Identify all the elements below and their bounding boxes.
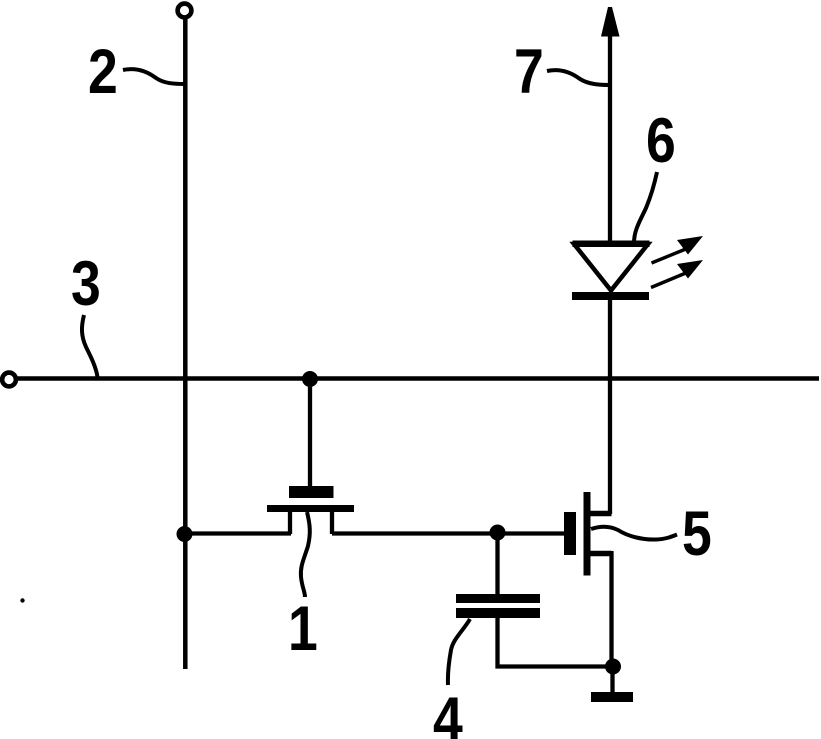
transistor Q1 left stub bbox=[288, 510, 292, 534]
wire : down to capacitor top plate bbox=[495, 532, 499, 595]
LED light arrow upper shaft bbox=[652, 249, 688, 264]
ground bar bbox=[591, 692, 633, 702]
capacitor C4 bottom plate bbox=[456, 608, 540, 618]
leader line for label 7 bbox=[547, 70, 610, 85]
svg-text:4: 4 bbox=[433, 685, 463, 739]
label 1 bbox=[288, 594, 318, 664]
terminal circle left of line 3 bbox=[2, 373, 16, 387]
wire : transistor 5 source down bbox=[609, 551, 613, 667]
node junction dot at capacitor top bbox=[490, 525, 506, 541]
node junction dot on line 3 bbox=[302, 371, 318, 387]
svg-text:3: 3 bbox=[71, 249, 101, 319]
wire : transistor 1 drain to transistor 5 gate bbox=[332, 531, 564, 535]
label 2 bbox=[88, 37, 118, 107]
node junction dot bottom bbox=[605, 659, 621, 675]
leader line for label 4 bbox=[448, 619, 470, 685]
label 7 bbox=[514, 37, 544, 107]
svg-text:2: 2 bbox=[88, 37, 118, 107]
transistor Q5 channel bar bbox=[584, 492, 591, 576]
LED light arrow lower shaft bbox=[651, 273, 687, 288]
leader line for label 3 bbox=[82, 315, 98, 377]
LED light arrow upper head bbox=[677, 236, 703, 255]
leader line for label 2 bbox=[123, 69, 185, 84]
label 3 bbox=[71, 249, 101, 319]
svg-text:1: 1 bbox=[288, 594, 318, 664]
leader line for label 1 bbox=[301, 512, 310, 597]
LED D6 triangle bbox=[574, 244, 648, 291]
wire : capacitor bottom plate down bbox=[495, 617, 499, 669]
transistor Q1 channel bar bbox=[267, 505, 354, 512]
svg-text:7: 7 bbox=[514, 37, 544, 107]
transistor Q1 gate bar bbox=[289, 486, 334, 498]
capacitor C4 top plate bbox=[456, 594, 540, 603]
LED D6 cathode bar bbox=[572, 292, 649, 300]
wire : supply line 7 vertical upper bbox=[608, 35, 612, 244]
transistor Q5 drain stub bbox=[590, 511, 612, 517]
wire : LED cathode down to transistor 5 drain bbox=[608, 298, 612, 514]
label 5 bbox=[682, 499, 712, 569]
ink speck bbox=[20, 598, 24, 602]
LED light arrow lower head bbox=[677, 260, 703, 279]
label 6 bbox=[646, 106, 676, 176]
leader line for label 5 bbox=[591, 527, 677, 540]
wire : bottom horizontal to transistor 5 source node bbox=[496, 664, 614, 668]
wire : gate of transistor 1 from node on line 3 bbox=[308, 379, 312, 488]
wire : data line 3 horizontal bbox=[16, 376, 820, 381]
transistor Q5 gate bar bbox=[564, 512, 576, 555]
wire : scan line 2 vertical bbox=[183, 14, 188, 669]
node junction dot on line 2 bbox=[177, 526, 193, 542]
label 4 bbox=[433, 685, 463, 739]
wire : line 2 to transistor 1 source bbox=[184, 531, 291, 535]
LED D6 anode top bar bbox=[573, 241, 650, 248]
svg-text:5: 5 bbox=[682, 499, 712, 569]
transistor Q1 right stub bbox=[330, 510, 334, 534]
arrowhead top of line 7 bbox=[601, 7, 620, 37]
terminal circle top of line 2 bbox=[178, 4, 192, 18]
transistor Q5 source stub bbox=[590, 551, 612, 557]
wire : stub to ground bbox=[610, 666, 614, 693]
leader line for label 6 bbox=[634, 172, 657, 243]
svg-text:6: 6 bbox=[646, 106, 676, 176]
